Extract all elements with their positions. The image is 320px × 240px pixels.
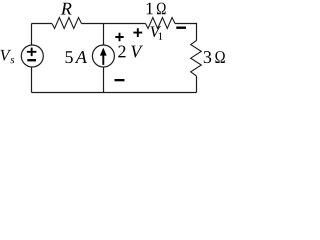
current source 5A	[92, 45, 114, 67]
minus sign inside Vs	[27, 59, 36, 61]
arrow inside current source	[102, 54, 104, 65]
plus sign of V1	[133, 28, 142, 37]
resistor 3 ohm	[191, 41, 202, 77]
label 2 V	[118, 45, 125, 57]
label R	[61, 3, 72, 15]
wire top-right horizontal and corner down	[175, 24, 197, 41]
plus sign inside Vs	[27, 48, 37, 57]
minus sign of V1	[176, 27, 186, 29]
wire bottom horizontal	[32, 92, 197, 94]
wire left vertical bottom	[31, 67, 33, 93]
label Vs	[1, 50, 11, 61]
voltage source Vs	[21, 45, 43, 67]
plus sign of 2V	[115, 33, 123, 41]
wire top-left horizontal (node A to R)	[32, 23, 53, 25]
minus sign of 2V	[115, 79, 125, 81]
wire left vertical top	[31, 24, 33, 46]
wire top-middle horizontal (R to 1-ohm)	[82, 23, 146, 25]
resistor 1 ohm	[146, 18, 176, 29]
wire right vertical bottom	[196, 76, 198, 93]
label 5 A	[66, 51, 73, 63]
resistor R	[52, 18, 82, 29]
label V1	[151, 27, 161, 38]
wire middle vertical bottom	[103, 67, 105, 93]
label 1 ohm	[147, 3, 153, 15]
wire middle vertical top (node to current source)	[103, 24, 105, 46]
label 3 ohm	[204, 51, 211, 63]
